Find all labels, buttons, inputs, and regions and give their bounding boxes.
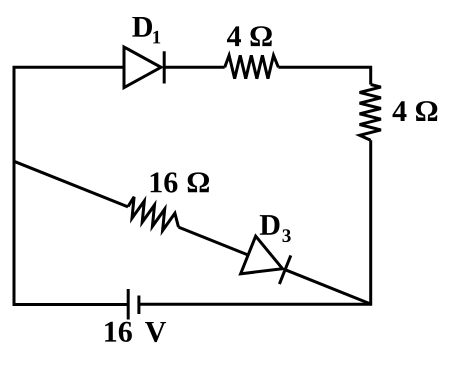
- resistor R-top 4ohm: [225, 55, 279, 78]
- wire diagonal segment 1: [14, 161, 128, 207]
- wire top-right corner: [278, 67, 370, 84]
- diode D1 bar: [163, 51, 166, 83]
- diode D1 triangle: [124, 47, 161, 88]
- label 4-ohm right: [393, 101, 438, 121]
- wire between D1 and top resistor: [164, 66, 225, 69]
- label D3 subscript 3: [283, 229, 291, 242]
- wire diagonal segment 2: [179, 227, 249, 255]
- label D1 subscript 1: [153, 31, 160, 44]
- label 16-V letter V: [145, 322, 166, 342]
- label D3 letter D: [260, 215, 280, 235]
- battery short plate: [137, 296, 140, 315]
- label 16-V digits: [105, 322, 132, 342]
- label 16-ohm omega: [188, 172, 209, 192]
- resistor R-diag 16ohm: [128, 197, 179, 231]
- label D1 letter D: [132, 17, 152, 37]
- wire diagonal segment 3: [285, 270, 372, 305]
- wire top-left, left side, bottom-left: [14, 67, 128, 304]
- wire right side lower and bottom-right: [139, 140, 371, 304]
- label 16-ohm digits: [151, 172, 178, 192]
- resistor R-right 4ohm: [360, 85, 381, 141]
- battery long plate: [127, 289, 130, 320]
- diode D3: [241, 236, 293, 288]
- label 4-ohm top: [227, 26, 272, 46]
